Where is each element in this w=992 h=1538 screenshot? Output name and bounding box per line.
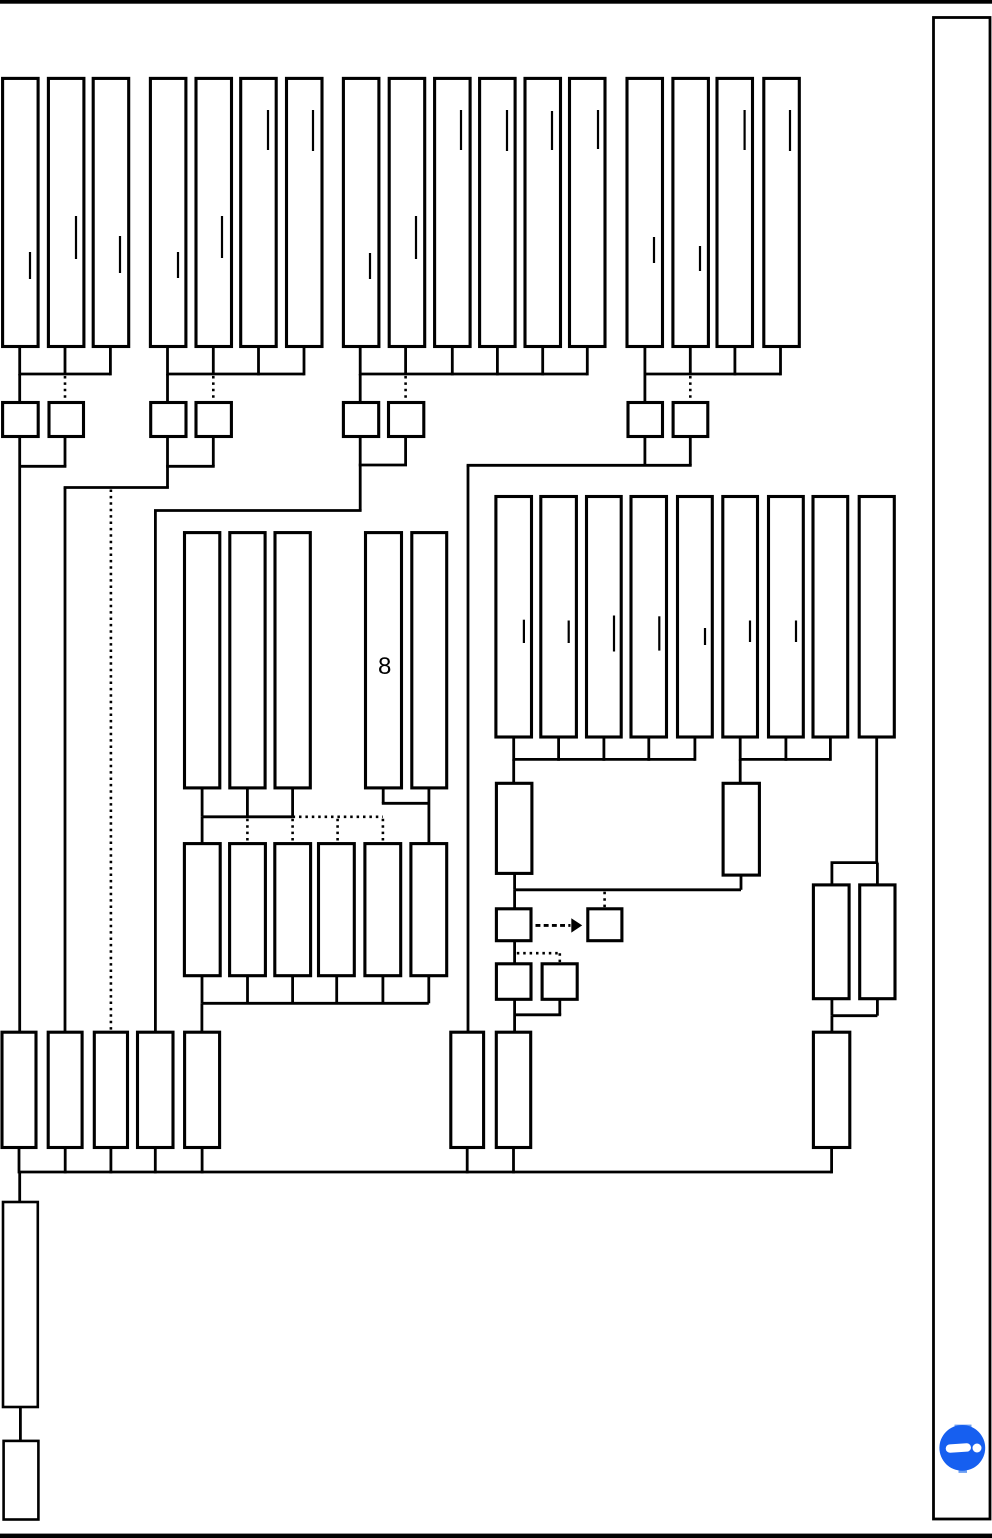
dotted drop to S5 <box>382 819 385 843</box>
wire L down <box>558 999 561 1015</box>
tall box P <box>3 1202 38 1407</box>
wire stub below B8 <box>830 1148 833 1174</box>
wire stub below box T1 <box>18 347 21 376</box>
wire stub below box T13 <box>586 347 589 376</box>
wire N-O join <box>832 1014 878 1017</box>
bottom row box B3 <box>94 1032 127 1147</box>
label mark in box T12 <box>551 111 553 150</box>
dotted drop to S4 <box>336 819 339 843</box>
wire group4 merge left <box>467 464 692 467</box>
wire D joins C <box>166 465 215 468</box>
wire L joins K <box>515 1013 562 1016</box>
bus under R1-R5 <box>514 758 695 761</box>
wire stub below S1 <box>201 976 204 1004</box>
wire M5 down to S6 <box>427 788 430 844</box>
right tall box R4 <box>631 497 667 738</box>
label mark in box T4 <box>177 252 179 278</box>
wire box B down <box>64 437 67 467</box>
middle tall box M3 <box>275 533 310 788</box>
wire bus to box H <box>739 759 742 783</box>
wire stub below B6 <box>466 1148 469 1174</box>
bus under group 1 (T1-T3) <box>20 373 111 376</box>
bus under R6-R8 <box>740 758 830 761</box>
wire stub below M3 <box>291 788 294 817</box>
label mark in box R3 <box>613 616 615 652</box>
wire group2 merge to x65 <box>64 486 169 489</box>
top row box T4 <box>150 78 186 346</box>
wire group4 down to bottom box B6 <box>467 465 470 1032</box>
wire stub below box T16 <box>734 347 737 376</box>
wire bus to box E <box>359 374 362 403</box>
bottom black bar <box>0 1534 992 1538</box>
label mark in box T1 <box>29 252 31 279</box>
wire R9 branch left <box>831 861 879 864</box>
dotted branch right <box>517 952 560 955</box>
wire bus to box G <box>512 759 515 783</box>
wire stub below B4 <box>154 1148 157 1174</box>
label mark in box T3 <box>119 236 121 273</box>
right tall box R1 <box>496 497 532 738</box>
middle box S1 <box>184 844 220 976</box>
wire box G4 down <box>644 437 647 465</box>
wire down to bottom box B8 <box>831 1016 834 1032</box>
middle tall box M1 <box>185 533 220 788</box>
wire stub below S2 <box>246 976 249 1004</box>
middle box S4 <box>319 844 355 976</box>
right tall box R8 <box>813 497 848 738</box>
label mark in box T9 <box>415 216 417 259</box>
wire stub below B2 <box>64 1148 67 1174</box>
wire box E down <box>359 437 362 511</box>
wire M4 joins M5 <box>382 802 429 805</box>
bus under group 3 (T8-T13) <box>360 373 588 376</box>
wire G-H join <box>515 888 741 891</box>
wire below N <box>831 999 834 1016</box>
label mark in box R1 <box>523 620 525 643</box>
top row box T5 <box>196 78 232 346</box>
interface box D <box>196 403 231 437</box>
wire box C down <box>166 437 169 488</box>
middle box S3 <box>275 844 311 976</box>
wire stub below box T12 <box>541 347 544 376</box>
interface box E <box>343 403 378 437</box>
right tall box R6 <box>723 497 758 738</box>
label mark in box T15 <box>699 246 701 271</box>
dotted bus extension <box>293 815 383 818</box>
label mark in box T8 <box>369 253 371 279</box>
bus under M1-M3 <box>202 815 293 818</box>
dotted drop to box J <box>603 892 606 908</box>
wire stub below box T9 <box>404 347 407 376</box>
wire below R9 <box>875 737 878 863</box>
top row box T17 <box>764 78 800 346</box>
wire stub below box T6 <box>257 347 260 376</box>
small box L <box>542 964 577 1000</box>
wire R9 down to box O <box>876 863 879 885</box>
svg-text:8: 8 <box>378 653 391 680</box>
wire stub below B1 <box>18 1148 21 1174</box>
right tall box R9 <box>859 497 894 738</box>
bottom row box B1 <box>2 1032 36 1147</box>
wire bus to box G4 <box>644 374 647 403</box>
top row box T16 <box>717 78 753 346</box>
tall small box H <box>723 783 759 875</box>
label mark in box T10 <box>460 110 462 150</box>
wire K down to bottom box B7 <box>513 999 516 1032</box>
middle tall box M5 <box>412 533 447 788</box>
wire box H4 down <box>689 437 692 465</box>
bus under group 2 (T4-T7) <box>168 373 305 376</box>
interface box B <box>49 403 84 437</box>
wire down to box I <box>513 890 516 909</box>
wire S-bus down to bottom box B5 <box>200 1003 203 1032</box>
bottom bus <box>19 1171 832 1174</box>
label mark in box T7 <box>312 110 314 151</box>
wire stub below S4 <box>335 976 338 1004</box>
wire bus to box A <box>18 374 21 403</box>
top row box T2 <box>48 78 84 346</box>
small box J <box>588 909 622 941</box>
wire stub below R6 <box>739 737 742 761</box>
label mark in box R6 <box>749 621 751 643</box>
bus under group 4 (T14-T17) <box>645 373 781 376</box>
right tall box R3 <box>587 497 622 738</box>
wire stub below R8 <box>829 737 832 761</box>
wire stub below B5 <box>201 1148 204 1174</box>
wire stub below S6 <box>427 976 430 1004</box>
dotted branch down to box L <box>558 953 561 963</box>
bottom row box B8 <box>813 1032 849 1147</box>
middle tall box M2 <box>230 533 265 788</box>
wire below H <box>740 875 743 890</box>
label mark in box R2 <box>568 621 570 644</box>
top row box T13 <box>570 78 606 346</box>
label mark in box T2 <box>75 216 77 259</box>
wire stub below box T4 <box>166 347 169 376</box>
bottom row box B2 <box>48 1032 82 1147</box>
dotted drop to S2 <box>246 819 249 843</box>
wire stub below box T15 <box>689 347 692 376</box>
interface box H4 <box>673 403 708 437</box>
top row box T7 <box>287 78 323 346</box>
top row box T6 <box>241 78 277 346</box>
label mark in box R5 <box>704 628 706 645</box>
label mark in box R7 <box>795 621 797 643</box>
wire stub below box T10 <box>451 347 454 376</box>
bottom row box B7 <box>496 1032 530 1147</box>
wire stub below R5 <box>694 737 697 761</box>
interface box F <box>389 403 424 437</box>
bottom row box B6 <box>451 1032 484 1147</box>
wire I down to box K <box>513 941 516 964</box>
wire stub below R2 <box>557 737 560 761</box>
right tall box R7 <box>769 497 804 738</box>
wire stub below box T7 <box>303 347 306 376</box>
wire stub below R1 <box>512 737 515 761</box>
tall small box G <box>496 783 532 873</box>
label mark in box T6 <box>267 110 269 150</box>
label mark in box T16 <box>743 110 745 150</box>
top row box T12 <box>525 78 561 346</box>
wire stub below M1 <box>201 788 204 817</box>
wire box D down <box>212 437 215 467</box>
wire branch down to box N <box>831 863 834 885</box>
top black bar <box>0 0 992 4</box>
top row box T15 <box>673 78 709 346</box>
dotted arrow I to J <box>536 924 571 927</box>
wire stub below B7 <box>512 1148 515 1174</box>
right tall box R2 <box>541 497 577 738</box>
wire below G <box>513 873 516 889</box>
wire stub below R4 <box>647 737 650 761</box>
right sidebar panel <box>934 18 991 1520</box>
top row box T1 <box>3 78 39 346</box>
right box N <box>813 885 849 999</box>
box Q <box>4 1441 39 1520</box>
wire box F down <box>404 437 407 466</box>
wire stub below box T3 <box>109 347 112 376</box>
small box K <box>496 964 531 1000</box>
label mark in box T13 <box>597 110 599 149</box>
wire P to Q <box>19 1407 22 1441</box>
wire stub below B3 <box>110 1148 113 1174</box>
wire F joins E <box>359 464 407 467</box>
label mark in box T14 <box>653 237 655 263</box>
dotted wire bus to box F <box>404 376 407 402</box>
dotted wire bus to box H4 <box>689 376 692 402</box>
right box O <box>860 885 895 999</box>
top row box T11 <box>480 78 515 346</box>
wire stub below box T17 <box>779 347 782 376</box>
wire stub below R3 <box>603 737 606 761</box>
bottom row box B4 <box>138 1032 174 1147</box>
label mark in box T17 <box>789 110 791 151</box>
wire bus to box C <box>166 374 169 403</box>
middle box S2 <box>230 844 266 976</box>
wire bus down to box P <box>18 1172 21 1202</box>
blue circle icon (blocked/minus symbol) <box>939 1425 985 1473</box>
label mark in box T5 <box>221 216 223 258</box>
wire stub below box T8 <box>359 347 362 376</box>
top row box T10 <box>435 78 471 346</box>
wire stub below box T5 <box>212 347 215 376</box>
dotted riser to bottom box B3 <box>110 490 113 1033</box>
middle box S6 <box>411 844 447 976</box>
bus under S row <box>202 1002 429 1005</box>
small box I <box>496 909 531 941</box>
label mark in box R4 <box>658 616 660 650</box>
top row box T9 <box>389 78 425 346</box>
top row box T14 <box>627 78 663 346</box>
dotted wire bus to box D <box>212 376 215 402</box>
wire stub below S3 <box>291 976 294 1004</box>
right tall box R5 <box>678 497 713 738</box>
wire stub below R7 <box>785 737 788 761</box>
wire stub below M2 <box>246 788 249 817</box>
wire group2 down to bottom box B2 <box>64 488 67 1033</box>
wire B joins A <box>20 465 67 468</box>
label mark in box T11 <box>506 110 508 151</box>
wire stub below M4 <box>382 788 385 803</box>
bottom row box B5 <box>185 1032 220 1147</box>
interface box A <box>3 403 39 437</box>
wire stub below box T11 <box>496 347 499 376</box>
wire stub below box T2 <box>64 347 67 376</box>
wire below O <box>876 999 879 1016</box>
middle tall box M4 <box>366 533 402 788</box>
wire group3 merge left <box>154 509 362 512</box>
dotted wire bus to box B <box>64 376 67 402</box>
middle box S5 <box>365 844 401 976</box>
wire box A down to bottom box B1 <box>18 437 21 1033</box>
wire stub below box T14 <box>644 347 647 376</box>
interface box C <box>151 403 186 437</box>
interface box G4 <box>628 403 663 437</box>
wire group3 down to bottom box B4 <box>154 511 157 1033</box>
dotted drop to S3 <box>291 819 294 843</box>
wire stub below S5 <box>381 976 384 1004</box>
wire bus to box S1 <box>201 817 204 844</box>
top row box T3 <box>93 78 129 346</box>
top row box T8 <box>343 78 379 346</box>
